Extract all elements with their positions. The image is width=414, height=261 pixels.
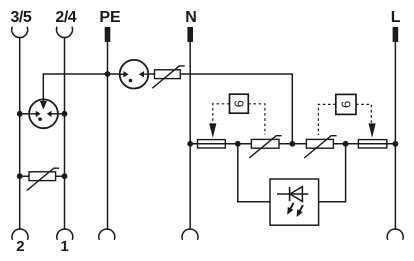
svg-text:N: N bbox=[185, 9, 197, 26]
svg-text:6: 6 bbox=[231, 100, 246, 107]
svg-text:2/4: 2/4 bbox=[55, 9, 76, 26]
svg-text:L: L bbox=[391, 9, 401, 26]
svg-text:2: 2 bbox=[16, 238, 24, 255]
svg-text:3/5: 3/5 bbox=[11, 9, 32, 26]
svg-text:PE: PE bbox=[99, 9, 121, 26]
svg-text:6: 6 bbox=[338, 101, 353, 108]
svg-text:1: 1 bbox=[60, 238, 68, 255]
